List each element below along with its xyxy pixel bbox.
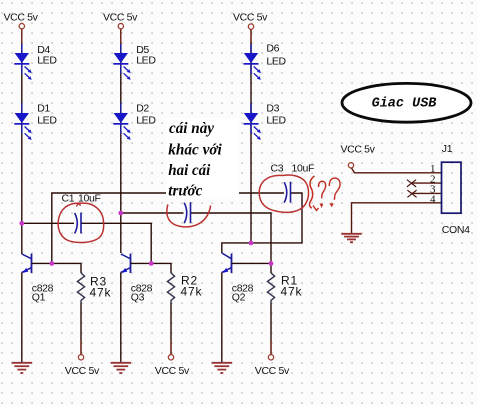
capacitor C3 [271,163,315,203]
svg-text:D3: D3 [266,103,279,115]
wire tint R2 bottom stub [170,340,172,355]
wire column 2 vertical from VCC through LEDs to Q3 collector [120,29,122,253]
svg-text:VCC 5v: VCC 5v [103,12,138,24]
resistor R2 [167,273,202,303]
wire C2 left: column2 junction to C2 [121,212,184,214]
wire R1 to bottom VCC [270,303,272,355]
ground at Q1 emitter [12,363,32,373]
svg-text:D1: D1 [37,103,50,115]
svg-text:VCC 5v: VCC 5v [155,365,190,377]
wire Q2 emitter to ground [221,272,223,362]
no-connect X pin 2 [407,180,416,187]
svg-text:C1: C1 [62,193,75,205]
svg-text:47k: 47k [281,284,303,298]
svg-text:LED: LED [136,54,156,66]
wire tint R1 bottom stub [270,340,272,355]
wire Q2 collector to C3 right riser and node wire y=243 [222,193,302,253]
red annotation half-circle under C2 [167,205,211,227]
svg-text:Q3: Q3 [131,292,145,304]
wire R2 to bottom VCC [170,303,172,355]
ground at USB [341,234,361,242]
svg-text:Q2: Q2 [232,292,246,304]
svg-text:cái này: cái này [169,120,214,137]
no-connect X pin 3 [407,190,416,197]
power port VCC 5v top column 3 [233,12,268,30]
wire C1 right to Q3 base: corner at x=151 [81,223,151,263]
svg-text:4: 4 [430,194,436,206]
svg-text:khác với: khác với [168,142,222,159]
svg-text:trước: trước [168,183,202,200]
LED D3 [244,103,287,140]
white note box behind handwriting [166,118,239,199]
red annotation squiggle [309,176,318,211]
wire column 3 vertical from VCC through LEDs to node at y=243 [250,29,252,243]
svg-text:10uF: 10uF [292,163,315,175]
svg-text:VCC 5v: VCC 5v [255,365,290,377]
transistor Q1 [22,254,54,304]
resistor R1 [267,273,302,303]
svg-text:LED: LED [266,55,286,67]
wire Q2 base to R1 [232,263,272,273]
handwritten note line 3: hai cai [168,162,211,179]
handwritten note line 4: truoc [168,183,202,200]
LED D6 [244,43,287,80]
wire USB pin 1 from VCC [352,168,442,173]
wire Q3 emitter to ground [120,272,122,362]
transistor Q3 [121,254,153,304]
power port VCC 5v bottom R2 [155,355,190,377]
node junction Q2 base R1 [269,261,274,266]
svg-text:VCC 5v: VCC 5v [233,12,268,24]
svg-text:VCC 5v: VCC 5v [65,365,100,377]
svg-text:Giac USB: Giac USB [372,97,437,112]
wire C2 right to Q2 base: corner at x=271 [191,213,272,263]
svg-text:VCC 5v: VCC 5v [341,144,376,156]
wire column 1 vertical from VCC through LEDs to Q1 collector [21,29,23,254]
transistor Q2 [222,253,254,304]
svg-text:LED: LED [266,114,286,126]
svg-text:C3: C3 [271,163,284,175]
wire Q1 base to R3 [32,263,82,273]
svg-text:47k: 47k [90,285,112,299]
svg-text:47k: 47k [181,284,203,298]
svg-text:LED: LED [37,114,57,126]
svg-text:D2: D2 [136,103,149,115]
wire C1 left: column1 junction to C1 [22,222,74,224]
node junction Q1 base [49,261,54,266]
LED D2 [113,103,156,140]
capacitor C1 [62,193,101,234]
red annotation question mark 2 [329,178,340,206]
connector J1 CON4 [430,143,470,236]
red annotation circle around C1 [58,203,104,242]
LED D5 [113,43,156,80]
wire tint R3 bottom stub [80,340,82,355]
ground at Q3 emitter [111,363,131,373]
wire tint top VCC stub column 3 [250,29,252,44]
handwritten note line 1: cai nay [169,120,214,137]
resistor R3 [77,273,111,303]
wire tint top VCC stub column 1 [21,29,23,44]
svg-text:J1: J1 [442,143,453,155]
power port VCC 5v bottom R3 [65,355,100,377]
svg-text:LED: LED [37,54,57,66]
svg-text:hai cái: hai cái [168,162,211,179]
wire tint top VCC stub column 2 [120,29,122,44]
red annotation circle around C3 [259,175,308,212]
node junction column2-C2 [118,211,123,216]
node junction Q3 base [149,261,154,266]
node junction column1-C1 [19,221,24,226]
svg-text:CON4: CON4 [442,224,470,236]
node junction column3 y=243 [249,241,254,246]
wire USB pin 4 to ground [352,203,442,234]
handwritten note line 2: khac voi [168,142,222,159]
power port VCC 5v top column 2 [103,12,138,29]
wire Q1 emitter to ground [21,272,23,362]
red annotation question mark 1 [319,181,326,207]
ellipse label Giac USB [342,83,471,122]
wire USB pin 3 stub [412,192,442,194]
wire Q3 base to R2 [131,263,172,273]
wire R3 to bottom VCC [80,303,82,355]
ground at Q2 emitter [212,363,232,373]
svg-text:Q1: Q1 [32,292,46,304]
wire Q1 base riser and long top wire to C3 left [52,193,284,263]
svg-text:LED: LED [136,114,156,126]
power port VCC 5v top column 1 [4,12,39,29]
LED D4 [14,43,57,80]
LED D1 [14,103,57,140]
power port VCC 5v USB [341,144,376,169]
svg-text:VCC 5v: VCC 5v [4,12,39,24]
svg-text:D6: D6 [266,43,279,55]
wire USB pin 2 stub [411,182,442,184]
power port VCC 5v bottom R1 [255,355,290,377]
capacitor C2 [184,202,190,223]
